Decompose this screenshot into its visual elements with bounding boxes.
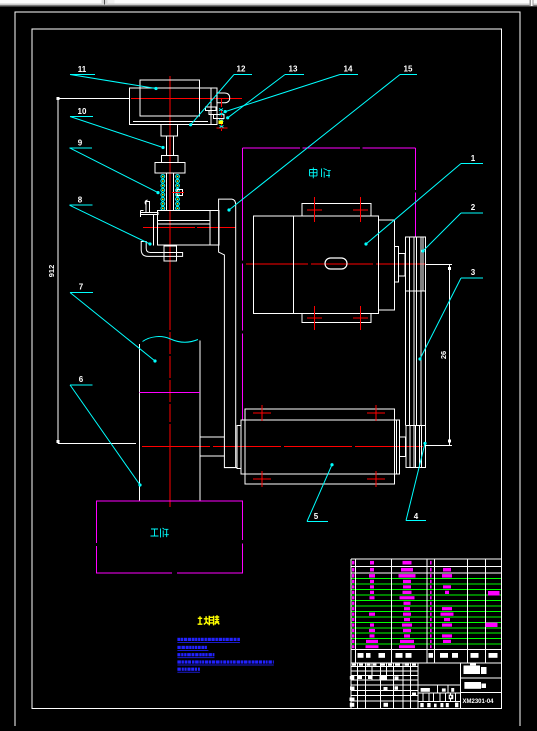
fitting step blocks bbox=[205, 107, 216, 111]
flange centerline marks bbox=[314, 306, 316, 330]
roller bolt marks bbox=[253, 405, 385, 487]
housing foot block bbox=[164, 246, 177, 261]
motor label dianji bbox=[310, 168, 331, 179]
roller cylinder body bbox=[241, 420, 400, 474]
motor key slot oval bbox=[325, 258, 347, 269]
dimension 912 line bbox=[57, 98, 59, 443]
tech requirements title bbox=[198, 615, 220, 625]
svg-text:10: 10 bbox=[78, 107, 87, 116]
terminal box centerline marks bbox=[314, 197, 316, 222]
roller end caps plate bbox=[245, 409, 395, 484]
svg-text:2: 2 bbox=[471, 203, 476, 212]
BOM remark highlight cells bbox=[488, 591, 500, 596]
toolbar slider notch bbox=[102, 0, 108, 5]
svg-text:3: 3 bbox=[471, 268, 476, 277]
top cylinder body part 11 bbox=[140, 80, 199, 116]
bracket arm profile bbox=[219, 199, 236, 468]
fitting centerline vertical bbox=[221, 99, 223, 131]
centerline vertical main spindle axis bbox=[169, 76, 171, 330]
drawing type block bbox=[464, 682, 486, 689]
title block left text marks bbox=[350, 664, 417, 707]
svg-text:5: 5 bbox=[314, 512, 319, 521]
spindle housing bore lines bbox=[158, 220, 211, 222]
roller left bearing bbox=[237, 425, 241, 468]
dimension 26 extension top bbox=[425, 263, 452, 265]
step line column to arm upper bbox=[200, 436, 225, 438]
motor left end cap line bbox=[293, 216, 295, 314]
dimension 26 line bbox=[448, 264, 450, 445]
title block left grid bbox=[351, 663, 418, 709]
svg-text:8: 8 bbox=[78, 196, 83, 205]
svg-text:12: 12 bbox=[237, 65, 246, 74]
spindle housing right flange bbox=[210, 211, 219, 246]
fitting nose part 12 bbox=[217, 93, 230, 103]
title block major verticals bbox=[417, 663, 419, 709]
housing left flange lines bbox=[153, 215, 155, 246]
spindle shaft upper bbox=[165, 136, 167, 156]
spindle shaft through spring bbox=[165, 173, 167, 210]
svg-text:XM2301-04: XM2301-04 bbox=[462, 699, 494, 705]
BOM magenta row entries bbox=[352, 561, 454, 648]
svg-text:1: 1 bbox=[471, 154, 476, 163]
motor right end cap bbox=[379, 220, 395, 310]
neck below bracket bbox=[161, 124, 177, 135]
spring left coil column bbox=[161, 175, 165, 211]
arm bottom step bbox=[224, 467, 236, 469]
roller shaft step right bbox=[400, 437, 406, 457]
step line column to arm lower bbox=[200, 455, 225, 457]
roller right journal line bbox=[395, 420, 397, 474]
workpiece label gongjian bbox=[151, 528, 169, 538]
motor shaft step 2 bbox=[399, 254, 406, 277]
motor body bbox=[253, 216, 378, 314]
column left edge bbox=[139, 344, 141, 501]
BOM header row text bbox=[358, 653, 498, 658]
collar small bbox=[162, 156, 178, 163]
title block outer bbox=[351, 663, 502, 709]
column right edge bbox=[199, 341, 201, 501]
dimension 912 extension line top bbox=[58, 97, 130, 99]
drawing name block bbox=[464, 663, 487, 674]
dimension 912 extension line bottom bbox=[58, 443, 136, 445]
svg-text:7: 7 bbox=[79, 283, 84, 292]
toolbar right divider bbox=[530, 0, 531, 6]
centerline horizontal motor axis bbox=[246, 263, 425, 265]
fitting yellow gland part 14 bbox=[219, 121, 224, 125]
clamp handle bbox=[146, 202, 150, 213]
centerline horizontal top cylinder bbox=[131, 97, 242, 99]
column bottom bbox=[140, 500, 200, 502]
top pulley part 2 bbox=[406, 237, 426, 291]
window toolbar strip bbox=[0, 0, 537, 4]
title block right rows bbox=[461, 677, 502, 679]
svg-text:15: 15 bbox=[404, 65, 413, 74]
workpiece phantom box bbox=[96, 501, 242, 573]
clamp bar bbox=[141, 213, 159, 215]
svg-text:6: 6 bbox=[79, 375, 84, 384]
bottom pulley part 4 bbox=[406, 426, 426, 468]
spring adjuster block bbox=[177, 190, 183, 196]
L-bracket under housing bbox=[141, 242, 182, 257]
fitting valve part 13 detail bbox=[219, 109, 224, 116]
svg-text:4: 4 bbox=[414, 512, 419, 521]
svg-text:912: 912 bbox=[47, 265, 56, 278]
v-belt part 3 bbox=[405, 291, 407, 426]
title block scale marks bbox=[420, 688, 458, 707]
motor terminal box bbox=[302, 204, 371, 217]
column break line wavy bbox=[143, 337, 198, 343]
spring right coil column bbox=[176, 175, 180, 211]
motor shaft step 1 bbox=[394, 247, 398, 283]
title block middle cells bbox=[418, 685, 460, 702]
svg-text:14: 14 bbox=[344, 65, 353, 74]
svg-text:13: 13 bbox=[289, 65, 298, 74]
collar wide bbox=[155, 163, 185, 174]
dimension 26 extension bottom bbox=[426, 444, 452, 446]
svg-text:9: 9 bbox=[78, 139, 83, 148]
centerline horizontal roller axis bbox=[142, 446, 426, 448]
column joint magenta line bbox=[140, 391, 200, 393]
spindle housing box bbox=[158, 211, 211, 246]
bracket housing U-frame bbox=[130, 88, 211, 125]
svg-text:11: 11 bbox=[78, 65, 87, 74]
centerline horizontal spindle housing bbox=[143, 226, 236, 228]
bracket right flange bbox=[211, 88, 217, 125]
motor bottom flange bbox=[302, 314, 371, 323]
svg-text:26: 26 bbox=[439, 351, 448, 359]
tech requirements note lines bbox=[177, 638, 273, 673]
motor enclosure phantom box bbox=[242, 148, 244, 419]
BOM parts list table grid bbox=[351, 559, 502, 663]
